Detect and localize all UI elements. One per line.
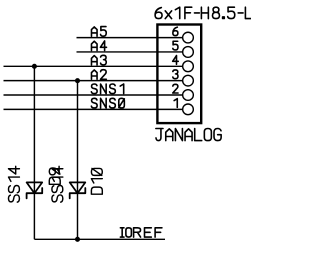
net label A4 — [91, 41, 106, 51]
pin 4 number — [173, 56, 179, 65]
wire A3 junction down to D9 and IOREF — [33, 66, 35, 239]
diode D10 schottky cathode — [70, 188, 86, 198]
connector value label 6x1F-H8.5-L — [155, 7, 252, 18]
D9 name — [49, 168, 60, 184]
wire net A5 — [77, 37, 184, 39]
pin 1 number — [174, 99, 177, 108]
net label A3 — [91, 55, 106, 65]
D9 value SS14 — [9, 166, 20, 202]
pin 4 circle — [183, 61, 194, 72]
pin 2 number — [173, 84, 178, 93]
pin 5 circle — [183, 47, 194, 58]
net label A5 — [91, 27, 106, 37]
diode D9 anode triangle — [27, 182, 43, 193]
pin 5 number — [173, 41, 178, 50]
pin 1 circle — [183, 104, 194, 115]
net label A2 — [91, 70, 106, 80]
net label SNS1 — [91, 84, 123, 94]
connector name label JANALOG — [156, 129, 221, 141]
IOREF wire — [34, 238, 165, 240]
pin 6 circle — [183, 32, 194, 43]
wire net A4 — [77, 51, 184, 53]
D10 value SS14 — [52, 166, 63, 202]
diode D10 anode triangle — [70, 182, 86, 193]
pin 3 number — [173, 70, 178, 79]
wire net A2 — [4, 80, 184, 82]
net label IOREF — [120, 228, 162, 237]
pin 3 circle — [183, 75, 194, 86]
wire net A3 — [4, 65, 184, 67]
diode D9 schottky cathode — [27, 188, 43, 198]
D10 name — [91, 168, 102, 194]
junction dot on A3 — [32, 64, 37, 69]
pin 6 number — [173, 27, 178, 35]
wire net SNS1 — [4, 94, 184, 96]
junction dot on A2 — [75, 78, 80, 83]
junction dot D10 to IOREF — [75, 237, 80, 242]
wire A2 junction down to D10 and IOREF — [77, 81, 79, 240]
connector JANALOG box — [157, 25, 201, 124]
pin 2 circle — [183, 90, 194, 101]
net label SNS0 — [91, 98, 124, 108]
wire net SNS0 — [4, 108, 184, 110]
